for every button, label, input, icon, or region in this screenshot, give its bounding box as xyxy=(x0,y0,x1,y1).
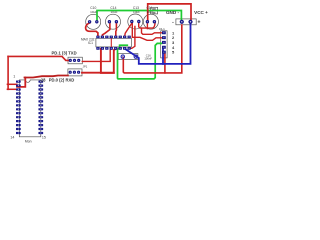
capacitor C16 100nF outline xyxy=(118,54,138,60)
svg-text:1: 1 xyxy=(13,74,15,78)
svg-text:10uF: 10uF xyxy=(133,10,140,14)
svg-text:PD.0 (2) RXD: PD.0 (2) RXD xyxy=(49,78,75,83)
capacitor C14 outline xyxy=(106,14,121,29)
svg-text:10uF: 10uF xyxy=(90,10,97,14)
wire JP box1 to MAX bottom pad xyxy=(82,49,111,62)
svg-text:15: 15 xyxy=(42,136,46,140)
pads C14 xyxy=(108,20,111,23)
capacitor C10 outline xyxy=(86,14,101,29)
wire green DL1 pad3 to MAX xyxy=(118,43,162,79)
svg-text:100nF: 100nF xyxy=(144,56,152,60)
svg-text:+: + xyxy=(197,20,200,26)
svg-text:JP1: JP1 xyxy=(83,65,88,69)
pins IC2 left column 1-14 xyxy=(16,81,21,135)
wire left box TXD net xyxy=(8,56,70,60)
label in small box xyxy=(152,8,156,10)
svg-text:VCC +: VCC + xyxy=(194,10,208,15)
wire left vertical to pin2 xyxy=(7,56,9,89)
svg-text:PD.1 (3) TXD: PD.1 (3) TXD xyxy=(52,50,77,55)
wire JP1 box2 to MAX bottom pad xyxy=(82,49,116,73)
wire arm to pin3 xyxy=(7,88,16,90)
PCB layout schematic xyxy=(0,0,214,150)
svg-text:Mon: Mon xyxy=(25,139,32,143)
pin holes IC2 xyxy=(18,81,41,134)
wire C14 left pad to MAX pad2 xyxy=(102,23,110,37)
small box top right xyxy=(151,7,158,14)
op IC1 MAX232 body outline xyxy=(96,38,131,47)
pads C13 xyxy=(130,20,133,23)
pins IC2 right column 15-28 xyxy=(38,81,43,135)
wire C13 left pad down to DL1 pad2 xyxy=(132,23,161,40)
wire hook around DIP pin 1 xyxy=(17,78,25,87)
wire branch to DL1 pad1 xyxy=(142,28,162,34)
wire arm to pin2 xyxy=(7,83,16,85)
jumper JP1 box2 outline xyxy=(68,69,82,76)
wire blue DL1 pad4 riser xyxy=(162,49,164,64)
svg-text:GND -: GND - xyxy=(166,10,179,15)
wire C13 left pad diagonal to MAX pad7 xyxy=(125,23,132,36)
wire C16 pad down GND run xyxy=(123,25,182,73)
wire long RXD line to JP1 xyxy=(25,76,68,78)
capacitor C11 outline xyxy=(143,14,158,29)
pads C11 xyxy=(146,20,149,23)
svg-text:14: 14 xyxy=(10,136,14,140)
wire MAX U leg xyxy=(101,49,114,73)
wire GND top bus xyxy=(97,11,181,22)
svg-text:10uF: 10uF xyxy=(110,10,117,14)
wire C10 left pad arc to MAX pad1 xyxy=(86,23,98,37)
wire riser to DL1 pad5 xyxy=(164,54,166,73)
svg-text:IC1: IC1 xyxy=(88,41,93,45)
capacitor C13 outline xyxy=(128,14,143,29)
wire C13 right pad to C11 right pad xyxy=(139,23,155,28)
svg-text:DL1: DL1 xyxy=(159,27,165,31)
wire C11 left pad up VCC top bus xyxy=(148,4,191,21)
connector DL1 outline xyxy=(161,31,167,58)
svg-text:28: 28 xyxy=(41,78,46,83)
power connector X1 outline xyxy=(176,19,196,25)
wire MAX pad4 vertical link xyxy=(110,37,112,48)
pads C10 xyxy=(88,20,91,23)
IC2 DIP-28 body outline xyxy=(19,80,41,137)
wire VCC blue run MAX pad7 to X1 xyxy=(125,23,191,64)
wire C13 circle to MAX bottom pad8 xyxy=(129,27,135,49)
wire C11 left pad stub down xyxy=(146,22,148,29)
wire C14 right pad to MAX pad5 xyxy=(115,23,118,37)
jumper JP box1 outline xyxy=(68,57,82,64)
wire green stub between MAX rows xyxy=(120,45,128,48)
